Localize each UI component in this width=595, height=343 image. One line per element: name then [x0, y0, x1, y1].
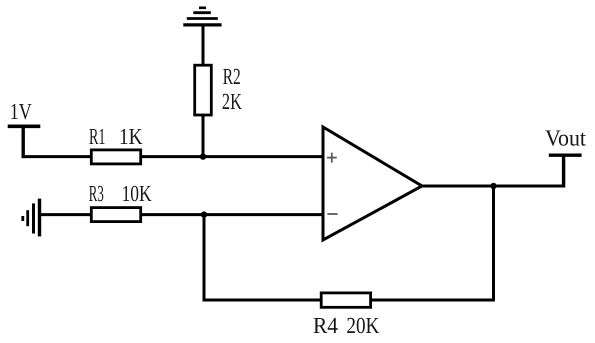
wire R3 to op-amp - input [141, 213, 324, 216]
wire feedback drop from node B [203, 215, 206, 302]
ground GND1 (top earth ground) [183, 8, 221, 25]
wire R2 to node A [202, 114, 205, 157]
wire feedback bottom left to R4 [204, 299, 322, 302]
svg-text:R2: R2 [223, 64, 241, 89]
resistor R1 [91, 150, 140, 164]
resistor R3 [91, 208, 140, 222]
node B (junction of - input wire and feedback) [201, 211, 207, 217]
wire R1 to op-amp + input [141, 155, 324, 158]
svg-text:Vout: Vout [545, 125, 587, 150]
ground GND2 (left earth ground, rotated) [23, 199, 40, 237]
node A (junction of R2 and + input wire) [200, 153, 206, 159]
svg-text:R1: R1 [89, 124, 106, 149]
wire feedback riser to node C [492, 186, 495, 302]
node C (output junction to feedback) [490, 183, 496, 189]
terminal 1V (input terminal bar) [8, 125, 41, 129]
wire 1V to resistor R1 [22, 155, 93, 158]
svg-text:1K: 1K [119, 124, 143, 149]
svg-text:R4: R4 [313, 313, 338, 338]
op-amp U1 (triangle) [323, 127, 422, 240]
wire Vout riser [562, 155, 565, 188]
wire op-amp output to Vout [421, 185, 564, 188]
resistor R4 [321, 293, 370, 307]
svg-text:1V: 1V [10, 99, 32, 124]
svg-text:20K: 20K [346, 313, 379, 338]
svg-text:R3: R3 [89, 181, 104, 206]
svg-text:10K: 10K [122, 181, 152, 206]
resistor R2 [195, 65, 212, 115]
pin - (inverting input mark) [327, 213, 337, 215]
wire ground GND2 to resistor R3 [41, 213, 92, 216]
wire 1V terminal down [22, 126, 25, 158]
pin + (non-inverting input mark) [327, 153, 337, 163]
wire ground GND1 to resistor R2 [202, 27, 205, 68]
terminal Vout (output terminal bar) [549, 153, 582, 156]
wire R4 to feedback riser [371, 299, 495, 302]
svg-text:2K: 2K [222, 89, 242, 114]
